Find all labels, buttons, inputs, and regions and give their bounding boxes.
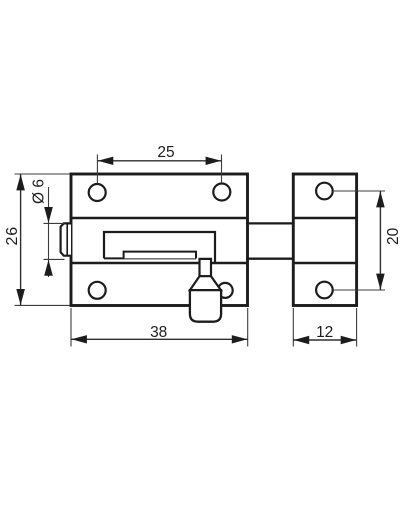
knob shoulder (190, 276, 221, 290)
svg-text:12: 12 (316, 324, 333, 341)
dim 26: extension line bottom (15, 304, 71, 306)
dim 20: leader top (333, 190, 385, 192)
dim 20: leader bottom (333, 289, 385, 291)
keeper plate (293, 174, 356, 306)
screw hole top-left (89, 184, 106, 201)
dim 25: left arrow (98, 157, 114, 165)
dim 38: left arrow (71, 335, 87, 343)
dim 12: left arrow (294, 336, 310, 344)
dim 38: extension line left (70, 308, 72, 347)
knob stem (200, 259, 212, 276)
bolt end cap (left) (61, 223, 71, 255)
dim 26: top arrow (16, 174, 25, 190)
bolt end cap lip line (66, 223, 68, 255)
slide base line (104, 257, 196, 259)
svg-text:38: 38 (150, 324, 167, 341)
main plate lower fold line (71, 262, 248, 265)
dim diameter 6: bottom tick (44, 258, 65, 260)
keeper upper fold line (293, 217, 356, 220)
dim 25: right arrow (206, 157, 222, 165)
dim diameter 6: bottom arrow (44, 260, 53, 276)
dim 12: right arrow (341, 336, 357, 344)
bolt bar between plates (246, 222, 295, 224)
keeper lower fold line (293, 262, 356, 265)
dim 38: extension line right (247, 308, 249, 347)
dim 12: extension line right (356, 308, 358, 347)
dim 20: bottom arrow (376, 274, 385, 290)
svg-text:26: 26 (4, 226, 21, 245)
dim 20: dimension line (379, 191, 381, 290)
dim 26: dimension line (20, 174, 22, 305)
screw hole top-right (213, 184, 230, 201)
slide bar (124, 252, 196, 259)
main plate upper fold line (71, 217, 248, 220)
screw hole bottom-right (behind knob) (218, 283, 233, 298)
svg-text:Ø 6: Ø 6 (31, 179, 48, 204)
keeper hole bottom (316, 282, 333, 299)
dim 25: extension line right (221, 155, 223, 184)
dim diameter 6: top arrow (44, 207, 53, 223)
dim 26: extension line top (15, 173, 71, 175)
svg-text:25: 25 (157, 144, 174, 161)
dim 12: dimension line (293, 339, 356, 341)
dim 25: extension line left (96, 155, 98, 184)
dim 26: bottom arrow (16, 289, 25, 305)
dim 38: right arrow (232, 335, 248, 343)
dim 38: dimension line (71, 338, 248, 340)
dim 12: extension line left (292, 308, 294, 347)
svg-text:20: 20 (385, 227, 401, 245)
knob ball (190, 290, 221, 322)
slide channel (104, 232, 215, 263)
dim 20: top arrow (376, 191, 385, 207)
screw hole bottom-left (89, 282, 106, 299)
dim diameter 6: witness line (48, 187, 50, 277)
dim 25: dimension line (97, 160, 221, 162)
main plate body (71, 174, 248, 306)
dim diameter 6: top tick (44, 222, 65, 224)
keeper hole top (316, 183, 333, 200)
